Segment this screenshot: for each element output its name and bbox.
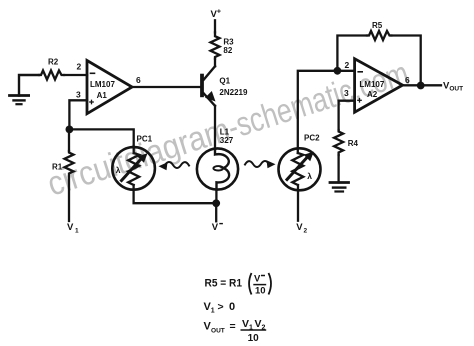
svg-text:3: 3 — [76, 89, 81, 99]
light arrow lamp to PC2 — [245, 160, 276, 168]
svg-text:82: 82 — [223, 46, 232, 55]
wire node to A2 pin 2 — [337, 70, 354, 72]
wire R3 to V+ — [214, 20, 216, 32]
svg-text:Q1: Q1 — [219, 77, 230, 86]
wire node to PC1 — [69, 129, 133, 153]
svg-text:>: > — [218, 301, 224, 313]
lamp L1 — [197, 148, 238, 189]
svg-text:PC1: PC1 — [137, 135, 153, 144]
minus input mark A1 — [91, 72, 95, 74]
photocell PC2 — [279, 148, 321, 190]
minus input mark A2 — [358, 71, 362, 73]
node pin3 junction — [66, 125, 74, 133]
resistor R4 — [334, 130, 343, 155]
svg-text:λ: λ — [116, 165, 121, 175]
svg-text:V: V — [296, 222, 303, 233]
svg-text:0: 0 — [229, 301, 235, 313]
wire R4 to ground — [337, 155, 339, 183]
wire node to R1 — [68, 129, 70, 151]
wire PC2 to A2 pin 2 — [297, 185, 299, 221]
svg-text:1: 1 — [211, 308, 215, 315]
wire Q1 collector to R3 — [214, 59, 216, 67]
svg-text:2: 2 — [77, 62, 82, 72]
ground — [10, 75, 40, 104]
ground — [330, 183, 349, 192]
svg-text:R5: R5 — [372, 21, 383, 30]
wire A1 output to Q1 base — [132, 86, 202, 88]
light arrow lamp to PC1 — [159, 162, 190, 170]
node output junction — [417, 82, 425, 90]
svg-text:2: 2 — [304, 228, 308, 235]
svg-text:V: V — [212, 222, 219, 233]
wire PC2 top to node — [298, 71, 338, 153]
svg-text:10: 10 — [248, 333, 260, 344]
wire PC1 to V- node — [134, 185, 217, 203]
svg-text:OUT: OUT — [211, 328, 226, 335]
svg-text:V: V — [67, 222, 74, 233]
photocell PC1 — [112, 147, 155, 190]
plus input mark A1 — [90, 100, 93, 103]
op-amp A1 — [87, 61, 132, 114]
svg-text:2N2219: 2N2219 — [219, 88, 248, 97]
resistor R5 — [367, 31, 391, 40]
wire A2 pin 3 to R4 — [339, 101, 355, 130]
node V- junction — [212, 199, 220, 207]
wire Q1 emitter to lamp — [214, 106, 216, 149]
svg-text:1: 1 — [75, 228, 79, 235]
op-amp A2 — [355, 59, 403, 112]
svg-text:LM107: LM107 — [359, 80, 384, 89]
wire A1 pin 3 — [69, 100, 87, 129]
svg-text:6: 6 — [405, 75, 410, 85]
svg-text:=: = — [230, 321, 236, 333]
wire V- stub — [215, 203, 217, 221]
wire R1 to V1 — [68, 177, 70, 222]
svg-text:327: 327 — [220, 136, 234, 145]
transistor Q1 — [202, 66, 216, 106]
svg-text:V: V — [254, 274, 261, 285]
resistor R1 — [65, 151, 74, 177]
formula R5 = R1 (V-/10) — [205, 273, 272, 297]
svg-text:2: 2 — [345, 60, 350, 70]
svg-text:V: V — [242, 318, 249, 330]
svg-text:A1: A1 — [97, 91, 108, 100]
svg-text:6: 6 — [136, 75, 141, 85]
node A2 pin2 junction — [334, 67, 342, 75]
svg-text:LM107: LM107 — [90, 80, 115, 89]
svg-text:PC2: PC2 — [304, 134, 320, 143]
wire A2 output — [403, 84, 441, 86]
svg-text:R5 = R1: R5 = R1 — [205, 278, 243, 290]
svg-text:R4: R4 — [348, 139, 359, 148]
svg-text:R1: R1 — [52, 163, 63, 172]
formula VOUT = V1V2/10 — [204, 318, 267, 344]
svg-text:V: V — [255, 318, 262, 330]
wire lamp to V- node — [215, 190, 217, 204]
wire R2 to A1 pin 2 — [64, 74, 87, 76]
watermark — [43, 53, 413, 203]
formula V1 > 0 — [204, 301, 236, 315]
plus input mark A2 — [358, 99, 361, 102]
svg-text:R2: R2 — [48, 58, 59, 67]
resistor R3 — [211, 32, 220, 58]
wire R5 feedback branch — [337, 36, 367, 71]
wire R5 to output node — [391, 36, 420, 86]
svg-text:3: 3 — [344, 88, 349, 98]
svg-text:λ: λ — [307, 171, 312, 181]
svg-text:10: 10 — [255, 286, 266, 297]
resistor R2 — [39, 71, 64, 80]
svg-text:A2: A2 — [367, 90, 378, 99]
